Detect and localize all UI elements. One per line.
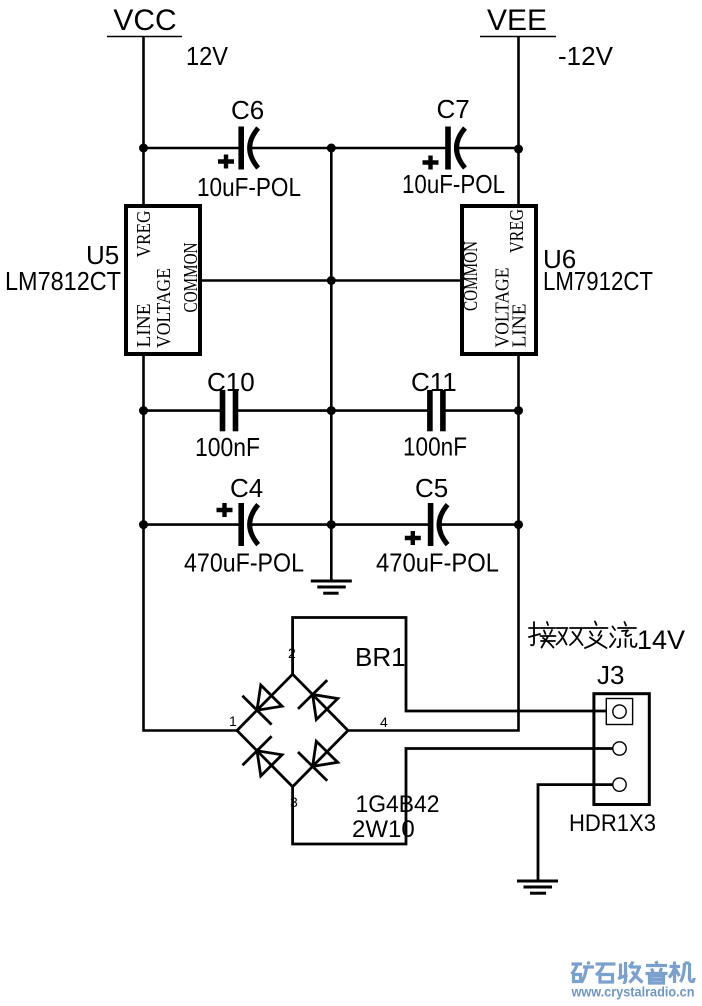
wire COMMON U5 to center [200, 279, 331, 282]
svg-text:14V: 14V [637, 625, 685, 655]
svg-text:C6: C6 [231, 95, 264, 125]
node center rail C4/C5 junction [327, 520, 336, 529]
wire C4 row left [144, 523, 241, 526]
wire C7 row left [331, 147, 447, 150]
voltage regulator U6 [460, 206, 653, 354]
wire VCC rail top [142, 37, 145, 206]
wire left rail lower [144, 354, 238, 731]
svg-text:VCC: VCC [113, 4, 176, 37]
wire C10 row left [144, 409, 222, 412]
svg-text:470uF-POL: 470uF-POL [376, 548, 499, 578]
diode D2 top-right [298, 680, 338, 720]
node left rail C10 junction [139, 406, 148, 415]
svg-text:470uF-POL: 470uF-POL [184, 548, 304, 578]
svg-text:www.crystalradio.cn: www.crystalradio.cn [571, 984, 695, 1000]
wire C5 row left [331, 523, 429, 526]
svg-text:C7: C7 [437, 94, 470, 124]
svg-text:1: 1 [229, 713, 237, 729]
wire C5 row right [441, 523, 519, 526]
node center/COMMON junction [327, 276, 336, 285]
svg-text:C5: C5 [415, 473, 448, 503]
wire J3 pin3 to ground [538, 785, 613, 880]
wire COMMON U6 to center [331, 279, 462, 282]
wire C6 row left [144, 147, 241, 150]
node center rail top junction [327, 144, 336, 153]
capacitor C4 [184, 473, 304, 578]
capacitor C7 [402, 94, 505, 199]
svg-text:BR1: BR1 [355, 642, 406, 672]
node center rail C10/C11 junction [327, 406, 336, 415]
diode D1 top-left [242, 685, 282, 725]
svg-text:LM7812CT: LM7812CT [5, 266, 121, 296]
svg-text:10uF-POL: 10uF-POL [402, 169, 505, 199]
wire VEE rail top [517, 37, 520, 206]
power symbol VCC [107, 4, 182, 37]
svg-text:C4: C4 [230, 473, 263, 503]
char 收 [618, 962, 643, 983]
svg-text:-12V: -12V [558, 41, 614, 71]
diode D4 bottom-right [298, 741, 338, 781]
char 机 [669, 962, 694, 984]
svg-text:LINE: LINE [133, 304, 155, 348]
svg-text:10uF-POL: 10uF-POL [197, 172, 301, 202]
svg-text:VOLTAGE: VOLTAGE [153, 268, 175, 348]
wire C11 row left [331, 409, 428, 412]
svg-text:VEE: VEE [487, 4, 547, 37]
wire C10 row right [237, 409, 331, 412]
voltage regulator U5 [5, 206, 202, 354]
wire BR1 pin3 to J3 pin2 [293, 749, 613, 845]
svg-text:1G4B42: 1G4B42 [356, 791, 440, 818]
char 石 [596, 964, 616, 982]
svg-text:VREG: VREG [133, 211, 155, 258]
svg-text:4: 4 [380, 714, 388, 730]
wire C6 row right [252, 147, 331, 150]
ground center [311, 581, 352, 593]
svg-text:100nF: 100nF [195, 432, 260, 462]
node left rail C4 junction [139, 520, 148, 529]
capacitor C11 [403, 367, 467, 462]
capacitor C5 [376, 473, 499, 578]
wire C4 row right [252, 523, 331, 526]
wire right rail lower [348, 354, 519, 731]
svg-text:HDR1X3: HDR1X3 [569, 810, 656, 837]
svg-text:LM7912CT: LM7912CT [543, 266, 653, 296]
power symbol VEE [480, 4, 556, 37]
svg-text:J3: J3 [597, 660, 624, 690]
svg-text:12V: 12V [186, 41, 229, 71]
svg-text:VREG: VREG [506, 209, 528, 253]
connector J3 [569, 660, 656, 837]
node VEE/C7 junction [514, 145, 523, 154]
diode D3 bottom-left [243, 736, 283, 776]
svg-text:COMMON: COMMON [180, 243, 202, 313]
watermark logo 矿石收音机 [572, 961, 695, 983]
node right rail C5 junction [514, 520, 523, 529]
wire C11 row right [444, 409, 519, 412]
bridge rectifier BR1 diamond [237, 674, 348, 787]
capacitor C10 [195, 367, 260, 462]
char 接 [529, 622, 556, 648]
svg-text:C10: C10 [207, 367, 255, 397]
svg-text:C11: C11 [411, 367, 457, 397]
wire center rail [330, 148, 333, 580]
node VCC/C6 junction [139, 144, 148, 153]
node right rail C11 junction [514, 406, 523, 415]
wire C7 row right [459, 147, 519, 150]
char 矿 [572, 962, 595, 983]
capacitor C6 [197, 95, 301, 202]
char 音 [646, 961, 668, 983]
char 双 [557, 628, 583, 645]
wire BR1 pin2 to J3 pin1 [293, 618, 613, 712]
char 流 [610, 622, 637, 647]
svg-text:LINE: LINE [509, 304, 531, 348]
char 交 [583, 622, 608, 649]
svg-text:COMMON: COMMON [460, 241, 482, 311]
ground right [517, 881, 558, 893]
annotation 接双交流14V [529, 622, 637, 649]
svg-text:100nF: 100nF [403, 432, 467, 462]
